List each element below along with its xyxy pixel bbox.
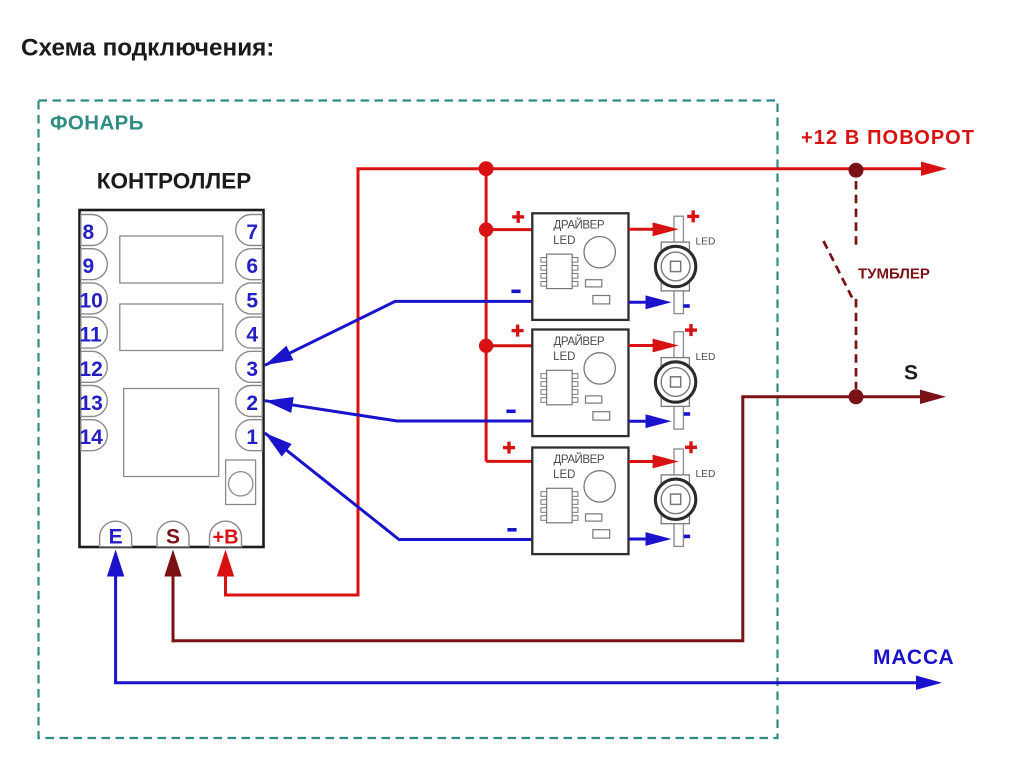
- LED D2 module: [655, 332, 715, 429]
- controller internal block 2: [120, 304, 223, 351]
- label - driver2 input: [506, 410, 515, 414]
- wire blue driver2 output arrow to LED D2 cathode: [629, 414, 672, 428]
- junction top red: [479, 161, 494, 176]
- label - LED D3 cathode: [684, 535, 691, 539]
- svg-text:11: 11: [80, 324, 103, 347]
- wire red driver1 output arrow to LED D1 anode: [629, 222, 679, 236]
- wire +B red horizontal bottom segment: [224, 594, 360, 597]
- pin 14: [80, 420, 108, 451]
- label + driver1 input: [512, 211, 524, 223]
- wire maroon S output with arrow: [741, 390, 946, 404]
- wire maroon bottom horizontal: [172, 639, 743, 642]
- svg-text:КОНТРОЛЛЕР: КОНТРОЛЛЕР: [97, 169, 251, 194]
- svg-text:+B: +B: [212, 527, 238, 549]
- svg-text:LED: LED: [696, 469, 716, 480]
- pin 10: [80, 283, 108, 314]
- svg-text:9: 9: [83, 255, 95, 278]
- toggle switch lever: [824, 241, 853, 298]
- svg-text:ДРАЙВЕР: ДРАЙВЕР: [554, 335, 605, 348]
- svg-text:ТУМБЛЕР: ТУМБЛЕР: [858, 266, 930, 283]
- controller body: [80, 210, 264, 547]
- wire blue driver1 minus to pin 3: [261, 301, 533, 372]
- toggle switch bottom terminal junction: [849, 389, 864, 404]
- pin 12: [80, 351, 108, 382]
- svg-text:10: 10: [80, 289, 103, 312]
- LED driver U1 ДРАЙВЕР LED: [532, 213, 628, 320]
- svg-text:3: 3: [246, 358, 258, 381]
- label - LED D2 cathode: [684, 412, 691, 416]
- wire red driver2 output arrow to LED D2 anode: [629, 339, 679, 353]
- pin 8: [81, 215, 108, 246]
- controller internal block 1: [120, 236, 223, 283]
- wire blue МАССА horizontal with arrow: [114, 676, 942, 690]
- label + LED D1 anode: [687, 210, 699, 222]
- svg-text:Схема подключения:: Схема подключения:: [21, 35, 274, 62]
- svg-text:12: 12: [80, 358, 103, 381]
- svg-text:ФОНАРЬ: ФОНАРЬ: [50, 112, 144, 135]
- junction driver2 feed: [479, 339, 493, 353]
- label + driver3 input: [503, 442, 515, 454]
- toggle switch dashed lower lead: [855, 299, 858, 389]
- label - driver3 input: [507, 528, 516, 532]
- pin E: [100, 521, 132, 548]
- pin S: [157, 521, 189, 548]
- svg-text:МАССА: МАССА: [873, 646, 955, 669]
- wire maroon S: arrow into pin S: [164, 550, 181, 643]
- wire maroon right riser: [741, 397, 744, 643]
- label + LED D2 anode: [685, 324, 697, 336]
- svg-text:8: 8: [83, 221, 95, 244]
- svg-text:6: 6: [246, 255, 258, 278]
- svg-text:13: 13: [80, 392, 103, 415]
- svg-text:S: S: [904, 362, 918, 385]
- svg-text:LED: LED: [553, 469, 575, 481]
- wire blue driver3 minus to pin 1: [260, 427, 533, 540]
- wire +B red vertical riser: [357, 169, 360, 597]
- LED D3 module: [655, 449, 715, 546]
- controller internal block 3: [124, 389, 219, 477]
- svg-text:LED: LED: [696, 352, 716, 363]
- svg-text:LED: LED: [553, 351, 575, 363]
- svg-text:LED: LED: [553, 235, 575, 247]
- svg-text:5: 5: [246, 289, 258, 312]
- label - LED D1 cathode: [683, 304, 690, 308]
- svg-text:ДРАЙВЕР: ДРАЙВЕР: [554, 219, 605, 232]
- controller button block: [226, 460, 256, 505]
- pin +B: [210, 521, 242, 548]
- pin 9: [81, 249, 108, 280]
- svg-text:7: 7: [246, 221, 258, 244]
- enclosure ФОНАРЬ dashed boundary: [39, 101, 778, 739]
- pin 13: [80, 386, 108, 417]
- pin 1: [236, 420, 263, 451]
- pin 7: [236, 215, 263, 246]
- wire red into driver 1: [486, 228, 533, 231]
- wire red into driver 3: [486, 460, 533, 463]
- label - driver1 input: [511, 290, 520, 294]
- wire +B red: arrow into pin +B: [217, 550, 234, 597]
- wire red distribution vertical: [485, 169, 488, 462]
- svg-text:14: 14: [80, 426, 104, 449]
- wire blue driver1 output arrow to LED D1 cathode: [629, 295, 672, 309]
- svg-text:ДРАЙВЕР: ДРАЙВЕР: [554, 453, 605, 466]
- svg-text:E: E: [109, 526, 123, 549]
- svg-text:S: S: [166, 526, 180, 549]
- label + driver2 input: [512, 325, 524, 337]
- svg-text:+12 В ПОВОРОТ: +12 В ПОВОРОТ: [801, 127, 975, 149]
- toggle switch dashed upper lead: [855, 181, 858, 246]
- junction driver1 feed: [479, 222, 493, 236]
- wire +12V top horizontal with arrow ПОВОРОТ: [357, 162, 948, 176]
- pin 2: [236, 386, 263, 417]
- pin 6: [236, 249, 263, 280]
- svg-text:LED: LED: [696, 236, 716, 247]
- svg-text:2: 2: [246, 392, 258, 415]
- toggle switch ТУМБЛЕР: top terminal junction: [849, 163, 864, 178]
- svg-text:4: 4: [246, 324, 258, 347]
- pin 5: [236, 283, 263, 314]
- LED driver U2 ДРАЙВЕР LED: [532, 330, 628, 437]
- svg-text:1: 1: [246, 426, 258, 449]
- wire blue driver2 minus to pin 2: [264, 393, 533, 421]
- wire red driver3 output arrow to LED D3 anode: [629, 455, 679, 469]
- LED driver U3 ДРАЙВЕР LED: [532, 448, 628, 555]
- LED D1 module: [655, 216, 715, 313]
- pin 11: [80, 317, 108, 348]
- label + LED D3 anode: [685, 441, 697, 453]
- pin 4: [236, 317, 263, 348]
- wire red into driver 2: [486, 344, 533, 347]
- pin 3: [236, 351, 263, 382]
- wire blue driver3 output arrow to LED D3 cathode: [629, 532, 672, 546]
- wire blue E: arrow into pin E: [107, 550, 124, 685]
